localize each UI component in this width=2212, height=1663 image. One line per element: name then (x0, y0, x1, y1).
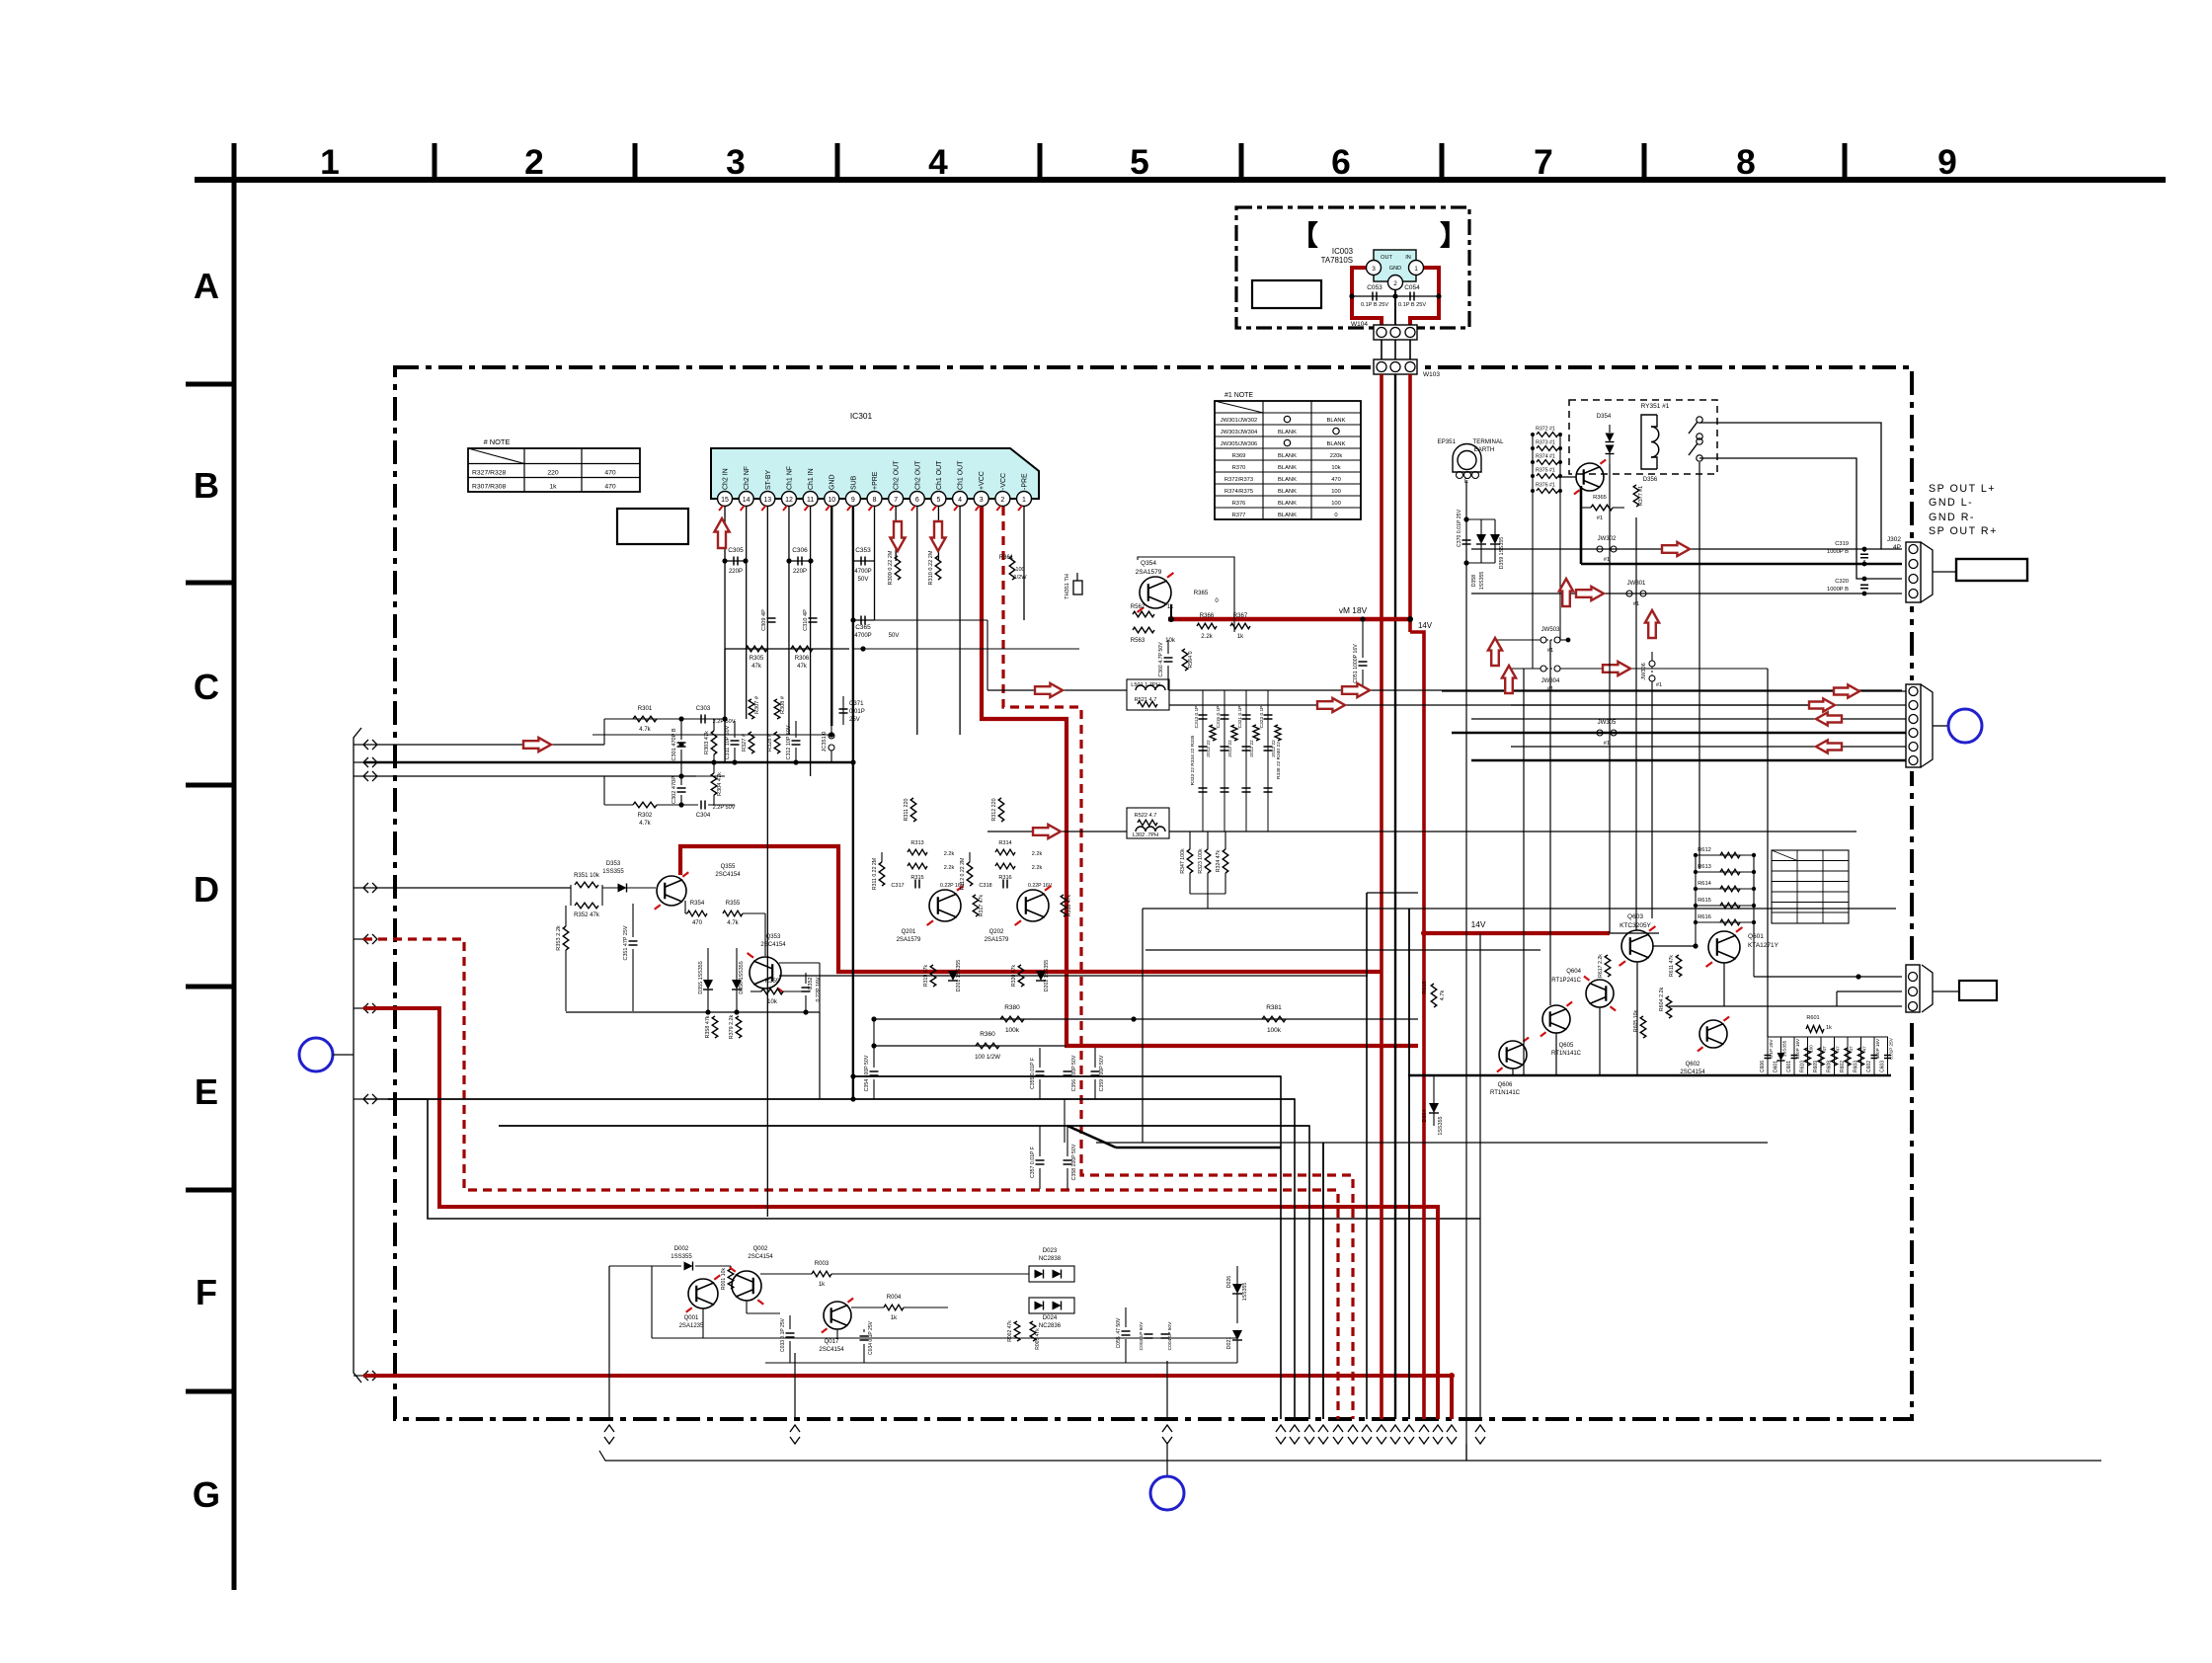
svg-text:R353 2.2k: R353 2.2k (556, 925, 562, 951)
wire F drop2 (794, 1353, 796, 1419)
wire Q353 out long (779, 975, 1368, 977)
IC301 pin drop wires (724, 507, 726, 762)
svg-text:OUT: OUT (1381, 255, 1392, 261)
wire D-row in (363, 887, 571, 889)
svg-text:3: 3 (726, 143, 746, 182)
svg-text:C356 100P 50V: C356 100P 50V (1071, 1055, 1077, 1091)
svg-text:R328 #: R328 # (767, 733, 773, 752)
svg-text:R318 47k: R318 47k (1066, 894, 1072, 916)
#1 NOTE table (1215, 401, 1361, 519)
wire right v6 (1651, 690, 1653, 918)
wire EP351 down (1465, 481, 1467, 1461)
svg-text:Q606: Q606 (1498, 1082, 1513, 1088)
black bus vertical (1394, 374, 1396, 1419)
wire Q356 base (1558, 476, 1576, 478)
svg-text:50V: 50V (858, 577, 869, 583)
red arrow up 3 (1559, 579, 1573, 606)
svg-text:KTA1271Y: KTA1271Y (1748, 942, 1779, 949)
svg-text:R317 47k: R317 47k (979, 894, 985, 916)
cap C054 wire (1395, 295, 1439, 297)
capacitor C353 (853, 560, 874, 562)
red wire IC003 in loop (1410, 268, 1439, 325)
svg-text:JW302: JW302 (1598, 536, 1617, 542)
svg-text:C051 1000P 16V: C051 1000P 16V (1353, 644, 1359, 683)
svg-text:#1 NOTE: #1 NOTE (1224, 392, 1253, 399)
box around Q354 (1138, 557, 1234, 632)
transistor Q002 (732, 1271, 761, 1301)
black bus vertical 3 (1322, 1143, 1324, 1419)
wire row C out2 (1169, 704, 1827, 706)
svg-text:C354 100P 50V: C354 100P 50V (864, 1055, 870, 1091)
diode D024 (1035, 1302, 1044, 1310)
resistor R618 (1431, 984, 1437, 1007)
transistor Q353 (750, 957, 781, 989)
svg-text:R301: R301 (638, 706, 653, 712)
wire JW301 line (1471, 593, 1906, 594)
resistor R379 (736, 1016, 742, 1038)
red wire 14V drop (1410, 632, 1424, 1419)
svg-text:C321 0.1P: C321 0.1P (1237, 706, 1243, 729)
svg-text:【: 【 (1291, 220, 1318, 251)
svg-text:R601: R601 (1806, 1015, 1819, 1021)
svg-text:470: 470 (604, 484, 616, 491)
wire mid row (592, 734, 831, 736)
capacitor C055 (1122, 1330, 1131, 1332)
svg-text:100P 16V: 100P 16V (1875, 1038, 1880, 1059)
IC301 pins (1017, 492, 1032, 507)
wire F mid (651, 1266, 653, 1338)
svg-text:7: 7 (1534, 143, 1553, 182)
svg-text:1SS355: 1SS355 (1242, 1283, 1248, 1302)
wire SP L+ (1699, 423, 1906, 549)
svg-text:D021: D021 (1226, 1337, 1232, 1350)
diode D359 (1490, 534, 1500, 544)
wire R305 row (725, 648, 849, 650)
svg-text:Q602: Q602 (1686, 1062, 1700, 1068)
svg-text:R604 2.2k: R604 2.2k (1659, 987, 1665, 1011)
wire R380 row (874, 1018, 1418, 1020)
svg-text:BLANK: BLANK (1278, 477, 1297, 483)
svg-text:C353: C353 (855, 547, 871, 554)
bundle v 1326 (499, 1126, 1309, 1419)
capacitor C034 (860, 1335, 869, 1337)
wire conn2 p2 (1511, 704, 1906, 706)
svg-text:1SS355: 1SS355 (1479, 572, 1485, 591)
svg-text:2SA1579: 2SA1579 (985, 937, 1009, 943)
svg-text:D358: D358 (1471, 575, 1477, 588)
svg-text:2SC4154: 2SC4154 (748, 1254, 773, 1260)
wire Q355 to Q353 (684, 901, 686, 913)
svg-text:C004 1P 50V: C004 1P 50V (1167, 1321, 1173, 1350)
svg-text:R365: R365 (1194, 591, 1209, 596)
wire E-row in black (363, 1099, 1480, 1219)
svg-text:8: 8 (1736, 143, 1756, 182)
wire ladder drop2 (1559, 491, 1561, 640)
wire farm top (1768, 1036, 1888, 1038)
red wire Q355 collector net (680, 846, 1382, 972)
wire row D out (987, 831, 1127, 832)
svg-text:D026: D026 (1226, 1276, 1232, 1289)
red arrow C-row (523, 738, 551, 752)
svg-text:C355 0.01P F: C355 0.01P F (1030, 1058, 1036, 1089)
svg-text:C312 10P 50V: C312 10P 50V (786, 725, 792, 759)
svg-text:GND: GND (1389, 266, 1401, 272)
svg-text:# NOTE: # NOTE (484, 437, 511, 446)
resistor R601 (1806, 1026, 1824, 1033)
svg-text:4.7k: 4.7k (639, 821, 651, 827)
svg-text:C360 4.7P 50V: C360 4.7P 50V (1158, 642, 1164, 677)
svg-text:220k: 220k (1330, 453, 1343, 459)
svg-text:100: 100 (1331, 501, 1341, 507)
svg-text:R605 10k: R605 10k (1633, 1009, 1639, 1032)
svg-text:1000P B: 1000P B (1827, 549, 1849, 555)
svg-text:Ch2 OUT: Ch2 OUT (914, 460, 921, 490)
top ruler line (195, 177, 2166, 183)
svg-text:C606: C606 (1760, 1061, 1766, 1072)
svg-text:1k: 1k (1237, 634, 1244, 640)
capacitor C360 (1164, 657, 1173, 659)
svg-text:C357 0.01P F: C357 0.01P F (1030, 1147, 1036, 1178)
svg-text:R376 #1: R376 #1 (1536, 483, 1555, 489)
left bus connectors (363, 740, 368, 750)
svg-text:10k: 10k (1331, 465, 1340, 471)
svg-text:JW305: JW305 (1598, 720, 1617, 726)
svg-text:R375 #1: R375 #1 (1536, 468, 1555, 474)
resistor R306 (791, 646, 813, 652)
svg-text:1: 1 (320, 143, 340, 182)
capacitor C356 (1064, 1070, 1072, 1072)
red arrow L501 left (1035, 683, 1063, 697)
svg-text:C371: C371 (849, 701, 864, 707)
svg-text:R367: R367 (1233, 613, 1248, 619)
svg-text:Q353: Q353 (766, 934, 781, 940)
speaker box R (1959, 981, 1997, 1000)
svg-text:47: 47 (1822, 1046, 1827, 1052)
red arrow down pin5 (930, 521, 945, 551)
svg-text:14: 14 (743, 497, 750, 504)
svg-text:SP OUT R+: SP OUT R+ (1929, 525, 1998, 537)
svg-text:1: 1 (1022, 497, 1026, 504)
svg-text:R307 #: R307 # (754, 695, 760, 714)
svg-text:W104: W104 (1351, 321, 1368, 328)
svg-text:0.01P: 0.01P (849, 709, 865, 715)
capacitor C312 (792, 740, 801, 742)
capacitor C351 (629, 940, 638, 942)
svg-text:JW306: JW306 (1641, 663, 1647, 679)
diode D356 (732, 980, 742, 990)
svg-text:1: 1 (1414, 266, 1418, 273)
output RC farm (1767, 1037, 1769, 1075)
cap C053 wire (1352, 295, 1395, 297)
transistor Q354 (1140, 577, 1171, 608)
svg-text:100: 100 (1015, 567, 1024, 573)
red arrow JW301 (1576, 587, 1604, 600)
svg-text:A: A (194, 266, 219, 306)
svg-text:BLANK: BLANK (1278, 453, 1297, 459)
svg-text:C003 1P 50V: C003 1P 50V (1139, 1321, 1145, 1350)
svg-text:2.2k: 2.2k (1032, 865, 1043, 871)
capacitor C053 (1372, 292, 1374, 301)
svg-text:0: 0 (1334, 513, 1337, 518)
svg-text:Ch2 NF: Ch2 NF (744, 466, 750, 490)
capacitor C352 (802, 987, 811, 989)
inductor L501 block (1127, 679, 1169, 710)
svg-text:25V: 25V (849, 717, 860, 723)
red arrow up 2 (1502, 666, 1516, 693)
transistor Q604 (1586, 980, 1614, 1007)
svg-text:JW303/JW304: JW303/JW304 (1221, 430, 1258, 436)
svg-text:R369: R369 (1232, 453, 1246, 459)
svg-text:2012 22: 2012 22 (1227, 740, 1233, 757)
diode D026 (1232, 1284, 1242, 1294)
resistor ladder R372-R376 (1537, 433, 1558, 437)
svg-text:RT1N141C: RT1N141C (1490, 1090, 1521, 1096)
svg-text:1SS355: 1SS355 (1438, 1116, 1444, 1135)
svg-text:D: D (194, 869, 219, 910)
red arrow up 4 (1645, 610, 1659, 638)
svg-text:R365: R365 (1593, 495, 1607, 501)
svg-text:R360: R360 (980, 1031, 995, 1038)
resistor R361 (1009, 556, 1015, 580)
svg-text:1000P B: 1000P B (1827, 587, 1849, 593)
svg-text:Ch2 OUT: Ch2 OUT (894, 460, 901, 490)
svg-text:GND L-: GND L- (1929, 497, 1973, 509)
svg-text:2SA1579: 2SA1579 (1136, 569, 1162, 576)
bundle v extra (1166, 1361, 1168, 1419)
svg-text:C303: C303 (696, 706, 711, 712)
svg-text:100: 100 (1809, 1045, 1814, 1053)
svg-text:BLANK: BLANK (1278, 501, 1297, 507)
svg-text:47k: 47k (751, 664, 762, 670)
terminal EP351 (1453, 444, 1481, 473)
wire vert 1078 (1064, 1099, 1066, 1143)
diode D002 (684, 1262, 693, 1271)
svg-text:47k: 47k (797, 664, 808, 670)
svg-text:D023: D023 (1043, 1248, 1058, 1254)
svg-text:C313 0.1P: C313 0.1P (1194, 706, 1200, 729)
wire relay2 (1699, 458, 1906, 579)
svg-text:#1: #1 (1597, 515, 1603, 521)
svg-text:C351 47P 25V: C351 47P 25V (623, 925, 629, 960)
resistor R327 (749, 732, 754, 753)
svg-text:C323 0.1P: C323 0.1P (1259, 706, 1265, 729)
svg-text:C311 10P 50V: C311 10P 50V (725, 725, 731, 759)
connector W103 (1374, 359, 1417, 374)
wire Q603 emitter (1636, 962, 1638, 1075)
svg-text:1/2W: 1/2W (1013, 575, 1027, 581)
svg-text:RT1P241C: RT1P241C (1551, 978, 1581, 984)
RC filter grid (1202, 690, 1204, 770)
transistor Q356 (1576, 463, 1604, 491)
wire to conn3 1 (1754, 976, 1906, 978)
svg-text:R370: R370 (1232, 465, 1246, 471)
resistor R351 (575, 882, 598, 888)
svg-text:C320: C320 (1835, 579, 1849, 585)
svg-text:D002: D002 (674, 1246, 689, 1252)
diode D358 (1476, 534, 1486, 544)
svg-text:2: 2 (524, 143, 544, 182)
capacitor C305 (725, 560, 746, 562)
svg-text:D353: D353 (606, 861, 621, 867)
svg-text:C365: C365 (855, 624, 871, 631)
svg-text:R366: R366 (1200, 613, 1215, 619)
speaker box L (1956, 559, 2027, 581)
blue circle right (1948, 709, 1982, 743)
wire IC003 gnd (1394, 290, 1396, 325)
svg-text:Q605: Q605 (1559, 1043, 1574, 1049)
red dashed from left bus (363, 939, 1338, 1419)
svg-text:Q604: Q604 (1566, 969, 1581, 975)
svg-text:C601: C601 (1786, 1061, 1792, 1072)
svg-text:Q603: Q603 (1627, 913, 1643, 920)
svg-text:2012 22: 2012 22 (1249, 740, 1255, 757)
red wire IC003 out loop (1352, 268, 1382, 325)
connector W104 (1374, 325, 1417, 340)
resistor R604 (1666, 996, 1672, 1018)
svg-text:47: 47 (1849, 1046, 1854, 1052)
blue circle bottom (1150, 1476, 1184, 1510)
svg-text:Q202: Q202 (989, 929, 1004, 935)
svg-text:BLANK: BLANK (1278, 489, 1297, 495)
svg-text:C301 470P B: C301 470P B (671, 728, 677, 760)
svg-text:R316: R316 (998, 875, 1011, 881)
red bus vertical 1 (1380, 374, 1383, 1419)
svg-text:R003: R003 (815, 1261, 829, 1267)
svg-text:R309 0.22 2M: R309 0.22 2M (888, 550, 894, 585)
svg-text:R376: R376 (1232, 501, 1246, 507)
capacitor C370 (1462, 539, 1471, 541)
svg-text:F: F (196, 1272, 217, 1312)
resistor R611 (1676, 955, 1682, 977)
svg-text:1k: 1k (891, 1315, 898, 1321)
bottom connector chevrons (604, 1425, 614, 1432)
svg-text:C305: C305 (728, 547, 744, 554)
svg-text:Q201: Q201 (902, 929, 916, 935)
wire EP351 chev (1465, 1444, 1467, 1461)
wires D358 net (1466, 518, 1495, 520)
resistor R355 (723, 911, 743, 916)
relay coil (1641, 415, 1657, 469)
wire Q605 emitter (1555, 1033, 1557, 1075)
red wire E-row solid (363, 1008, 1438, 1419)
svg-text:IC003: IC003 (1332, 247, 1354, 256)
svg-text:11: 11 (807, 497, 814, 504)
jumper JC351 (829, 733, 834, 739)
svg-text:C309 4P: C309 4P (761, 609, 767, 631)
resistor R365b (1591, 505, 1613, 511)
svg-text:Ch1 IN: Ch1 IN (808, 468, 815, 490)
svg-text:D604: D604 (1422, 1110, 1428, 1123)
red arrow SP (1662, 542, 1690, 556)
svg-text:220P: 220P (793, 569, 807, 575)
svg-text:100: 100 (1331, 489, 1341, 495)
ground rail D-row left (566, 1011, 820, 1013)
svg-text:100k: 100k (1005, 1027, 1020, 1034)
svg-text:R562: R562 (1131, 604, 1145, 610)
svg-text:R005 47k: R005 47k (1035, 1328, 1041, 1350)
svg-text:ST-BY: ST-BY (765, 470, 772, 490)
svg-text:JW503: JW503 (1541, 627, 1560, 633)
svg-text:C: C (194, 667, 219, 707)
power supply dash-dot box (1236, 207, 1469, 328)
svg-text:R351 10k: R351 10k (574, 873, 600, 879)
svg-text:R333 22 R334 22 R335: R333 22 R334 22 R335 (1190, 735, 1196, 785)
wire Q601 emitter (1723, 963, 1725, 1006)
svg-text:4: 4 (928, 143, 948, 182)
svg-text:14V: 14V (1418, 621, 1433, 630)
svg-text:D024: D024 (1043, 1315, 1058, 1321)
svg-text:2.2k: 2.2k (944, 865, 955, 871)
svg-text:2SC4154: 2SC4154 (760, 942, 786, 948)
wire conn2 p3 (1471, 718, 1906, 720)
resistor R366 (1197, 623, 1217, 629)
svg-text:2.2k: 2.2k (1032, 851, 1043, 857)
svg-text:R311 0.22 2M: R311 0.22 2M (872, 858, 878, 890)
red arrow conn2 b (1809, 698, 1835, 711)
svg-text:15: 15 (721, 497, 729, 504)
wire conn2 p1 (1442, 690, 1906, 692)
svg-text:R373 #1: R373 #1 (1536, 440, 1555, 446)
resistor R305 (746, 646, 767, 652)
svg-text:TH351 TH: TH351 TH (1065, 574, 1070, 599)
red wire F-row solid (363, 1376, 1452, 1419)
svg-text:10k: 10k (1165, 638, 1176, 644)
wire right v7 (1698, 462, 1700, 869)
svg-text:R563: R563 (1131, 638, 1145, 644)
connector 6P (1906, 684, 1921, 767)
wire R347 bottom (1190, 893, 1225, 895)
svg-text:R355: R355 (726, 901, 741, 907)
IC003 pin 2 (1388, 276, 1403, 290)
svg-text:C306: C306 (792, 547, 808, 554)
wire Q606 emitter (1512, 1069, 1514, 1075)
svg-text:220P 16V: 220P 16V (1795, 1038, 1800, 1059)
svg-text:R315: R315 (910, 875, 923, 881)
svg-text:BLANK: BLANK (1278, 430, 1297, 436)
svg-text:2SC4154: 2SC4154 (819, 1347, 844, 1353)
red wire 14V row D (1424, 931, 1610, 935)
svg-text:R603: R603 (1854, 1061, 1859, 1072)
resistor R358 (712, 1016, 718, 1038)
transistor Q017 (824, 1302, 851, 1329)
resistor R563 (1133, 627, 1154, 633)
connector J302 (1906, 542, 1921, 602)
red wire +VCC net (982, 507, 1418, 1046)
svg-text:9: 9 (1937, 143, 1957, 182)
svg-text:100k: 100k (1267, 1027, 1282, 1034)
svg-text:NC2838: NC2838 (1039, 1256, 1062, 1262)
capacitor C301 (677, 742, 686, 744)
wire right v8 (1767, 669, 1769, 1037)
transistor Q355 (657, 876, 686, 906)
svg-text:R324 47k: R324 47k (1216, 849, 1222, 872)
wire right v4 (1609, 464, 1611, 933)
svg-text:Q355: Q355 (721, 864, 736, 870)
svg-text:R372 #1: R372 #1 (1536, 427, 1555, 433)
svg-text:R614: R614 (1698, 881, 1712, 887)
wire R351 loop (570, 885, 572, 906)
svg-text:1k: 1k (1826, 1025, 1832, 1031)
wire conn2 p5 (1511, 746, 1906, 748)
capacitor C054 (1409, 292, 1411, 301)
diode D353 (618, 884, 627, 893)
svg-text:R377: R377 (1232, 513, 1246, 518)
svg-text:4.7k: 4.7k (639, 727, 651, 733)
svg-text:D356 1SS355: D356 1SS355 (739, 961, 745, 993)
wire SP line2 thick (1581, 563, 1906, 566)
svg-text:SP OUT L+: SP OUT L+ (1929, 483, 1996, 495)
svg-text:470: 470 (604, 470, 616, 477)
